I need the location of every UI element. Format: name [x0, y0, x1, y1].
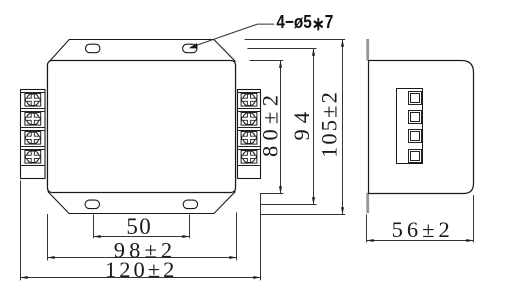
dim 80 line [280, 61, 282, 194]
dim 56 arrow left [367, 239, 374, 242]
right terminal screw 1 [238, 93, 261, 107]
dim 56 extension line right [473, 195, 475, 242]
right block separator line 3 [238, 146, 261, 148]
front view body [48, 61, 236, 193]
dim 105 extension line top [245, 39, 346, 41]
mounting hole bottom-right [183, 200, 197, 209]
dim 50 extension line right [189, 215, 191, 239]
dim 98 arrow right [229, 256, 236, 259]
mounting hole bottom-left [85, 200, 99, 209]
dim 94 arrow top [312, 49, 315, 56]
dim 50 arrow left [94, 235, 101, 238]
right block separator line 4 [238, 165, 261, 167]
dim 105 extension line bottom [261, 214, 345, 216]
right terminal block outline [238, 90, 261, 179]
left terminal screw 2 [21, 112, 46, 126]
side view flange plate bottom stub [366, 193, 369, 213]
leader line to mounting hole [190, 24, 274, 47]
dim 120 arrow right [253, 276, 260, 279]
right terminal screw 4 [238, 150, 261, 164]
dim 98 arrow left [48, 256, 55, 259]
side view flange plate top stub [366, 39, 369, 61]
body outline redrawn over flange joints [48, 61, 236, 193]
mounting hole top-left [86, 44, 100, 53]
leader arrowhead [188, 43, 199, 51]
dim 120 line [21, 277, 261, 279]
dim 105 arrow top [341, 40, 344, 47]
left terminal screw 3 [21, 131, 46, 145]
svg-text:50: 50 [126, 214, 152, 239]
dim 94 extension line top [247, 48, 316, 50]
dim 80 arrow bottom [279, 186, 282, 193]
dim 120 extension line right [260, 194, 262, 280]
dim 98 extension line left [47, 214, 49, 260]
dim 56 arrow right [466, 239, 473, 242]
dim 50 arrow right [182, 235, 189, 238]
left terminal screw 4 [21, 150, 46, 164]
right terminal screw 3 [238, 131, 261, 145]
dim 120 extension line left [20, 181, 22, 281]
svg-text:105±2: 105±2 [316, 90, 341, 158]
left terminal screw 1 [21, 93, 46, 107]
side view body [369, 61, 474, 194]
right terminal screw 2 [238, 112, 261, 126]
dim 105 line [342, 40, 344, 215]
svg-text:80±2: 80±2 [257, 90, 282, 157]
side terminal contact 1 [409, 92, 422, 105]
dim 98 line [48, 257, 237, 259]
left block separator line 3 [21, 146, 46, 148]
dim 98 extension line right [236, 212, 238, 260]
dim 80 arrow top [279, 61, 282, 68]
dim 50 line [94, 236, 190, 238]
dim 94 arrow bottom [312, 197, 315, 204]
right block separator line 1 [238, 108, 261, 110]
svg-text:120±2: 120±2 [105, 257, 177, 282]
bottom mounting flange [48, 192, 235, 214]
dim 94 line [313, 49, 315, 205]
left block separator line 1 [21, 108, 46, 110]
dim 120 arrow left [21, 276, 28, 279]
dim 105 arrow bottom [341, 207, 344, 214]
side view terminal block [397, 89, 423, 164]
svg-text:94: 94 [289, 106, 314, 141]
dim 50 extension line left [93, 215, 95, 239]
dim 56 extension line left [366, 215, 368, 243]
top mounting flange [50, 40, 235, 62]
dim 80 extension line bottom [260, 193, 283, 195]
dim 94 extension line bottom [260, 204, 317, 206]
side terminal contact 2 [409, 111, 422, 124]
svg-text:4−ø5∗7: 4−ø5∗7 [276, 11, 333, 34]
svg-text:56±2: 56±2 [392, 217, 454, 242]
left block separator line 4 [21, 165, 46, 167]
left terminal block outline [21, 90, 46, 179]
side terminal contact 3 [409, 130, 422, 143]
right block separator line 2 [238, 127, 261, 129]
side terminal contact 4 [409, 150, 422, 163]
dim 80 extension line top [250, 60, 284, 62]
dim 56 line [367, 240, 474, 242]
left block separator line 2 [21, 127, 46, 129]
mounting hole top-right [183, 44, 197, 53]
